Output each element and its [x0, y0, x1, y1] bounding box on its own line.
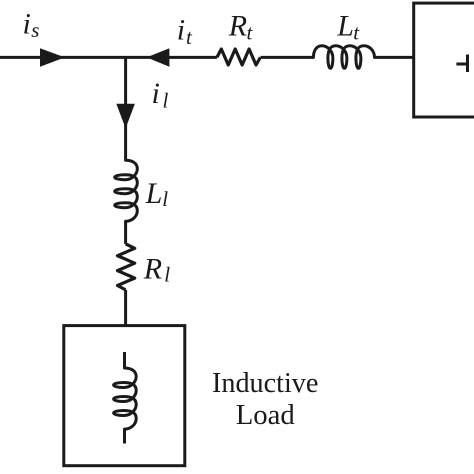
wire: between resistor Rt and inductor Lt — [261, 56, 314, 59]
wire: main horizontal from left edge to resistor Rt — [0, 56, 217, 59]
resistor Rt — [217, 49, 260, 65]
svg-text:t: t — [353, 20, 360, 44]
+ polarity mark of source — [456, 63, 468, 66]
svg-text:Inductive: Inductive — [212, 367, 318, 399]
current arrow il (down-pointing) — [116, 104, 135, 129]
svg-text:l: l — [164, 263, 170, 287]
svg-text:t: t — [247, 20, 254, 44]
svg-text:t: t — [186, 25, 193, 49]
wire: load box inductor top lead — [123, 352, 126, 368]
inductor Lt — [313, 46, 374, 69]
svg-text:L: L — [336, 9, 354, 42]
svg-text:Load: Load — [236, 399, 295, 431]
inductor Ll — [115, 160, 138, 221]
wire: between inductor Ll and resistor Rl — [124, 221, 127, 244]
svg-text:L: L — [145, 177, 163, 210]
wire: load box inductor bottom lead — [123, 429, 126, 443]
wire: resistor Rl down to load box — [124, 290, 127, 326]
svg-text:R: R — [228, 9, 247, 42]
svg-text:i: i — [152, 77, 160, 110]
svg-text:i: i — [177, 14, 185, 47]
source box (clipped at right edge) — [414, 3, 474, 117]
svg-text:l: l — [162, 187, 168, 211]
svg-text:l: l — [163, 88, 169, 112]
resistor Rl — [118, 244, 135, 290]
wire: vertical branch from junction down to inductor Ll — [124, 57, 127, 160]
wire: inductor Lt to source box — [375, 56, 414, 59]
current arrow is (right-pointing) — [40, 48, 65, 66]
svg-text:R: R — [143, 252, 162, 285]
svg-text:i: i — [23, 7, 31, 40]
svg-text:s: s — [31, 18, 39, 42]
current arrow it (left-pointing) — [147, 48, 170, 66]
inductor inside load box — [114, 368, 137, 429]
load box — [64, 326, 185, 466]
